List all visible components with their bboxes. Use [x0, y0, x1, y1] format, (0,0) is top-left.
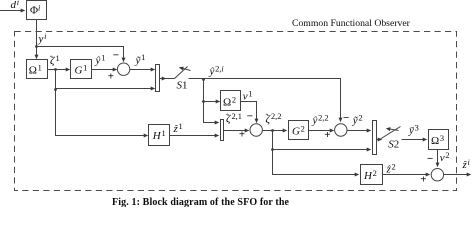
label d^i [11, 0, 20, 11]
svg-text:yi: yi [38, 32, 48, 45]
svg-text:ˆ: ˆ [226, 111, 229, 121]
block H^2 [361, 165, 383, 185]
label H^1 in block [152, 129, 166, 142]
summing circle 4 [431, 169, 443, 181]
block Omega^2 [221, 91, 241, 111]
wire into Omega2 [204, 101, 220, 103]
svg-text:−: − [343, 112, 349, 124]
node zeta-hat-1 junction [54, 68, 57, 71]
mux bar 3 [373, 121, 377, 155]
node y^i branch junction [35, 45, 38, 48]
svg-text:+: + [420, 173, 426, 185]
node branch to bar1 [54, 88, 57, 91]
wire zeta-hat-1 Omega1 to G1 [48, 69, 70, 71]
svg-text:ȳ3: ȳ3 [408, 123, 419, 136]
svg-text:+: + [239, 129, 245, 141]
label G^2 in block [292, 124, 305, 137]
mux bar 1 [156, 65, 160, 92]
svg-text:Fig. 1: Block diagram of the S: Fig. 1: Block diagram of the SFO for the [112, 197, 290, 207]
wire bar1 output stub [160, 78, 166, 80]
svg-text:Common Functional Observer: Common Functional Observer [292, 18, 411, 29]
label v^2 [440, 151, 450, 164]
wire y^i vertical from Phi to Omega1 [36, 20, 38, 59]
svg-text:ẑ2: ẑ2 [386, 162, 396, 175]
wire zeta-hat-1 branch down [56, 70, 148, 136]
wire zeta-hat-22 circle2 to G2 [263, 130, 287, 132]
switch S2 blade [380, 127, 401, 140]
wire branch to bar3 lower input [273, 149, 371, 151]
label y-hat-22 [312, 113, 329, 126]
label y-hat-2i [209, 64, 225, 77]
switch S2 actuator arrow [387, 129, 399, 131]
wire y^i feedback to summing circle 1 [37, 47, 124, 62]
svg-text:ŷ1: ŷ1 [95, 53, 106, 66]
svg-text:ỹ1: ỹ1 [135, 53, 146, 66]
svg-text:−: − [247, 111, 253, 123]
wire y-bar-3 S2 to Omega3 [402, 139, 427, 141]
mux bar 2 [221, 120, 224, 141]
label z-hat-2 [386, 162, 396, 175]
svg-text:ˆ: ˆ [265, 112, 268, 122]
svg-text:v1: v1 [243, 90, 253, 103]
label y-bar-3 [408, 123, 419, 136]
wire y-hat-2i S1 to circle3 top [189, 79, 341, 122]
block G^1 [71, 60, 92, 79]
svg-text:−: − [113, 50, 119, 62]
label z-hat-i output [462, 158, 471, 171]
svg-text:+: + [324, 129, 330, 141]
label zeta-hat-21 [226, 111, 242, 125]
node branch to Omega2 [202, 100, 205, 103]
svg-text:ẑ1: ẑ1 [173, 122, 183, 135]
wire bar2 output zeta-hat-21 to circle2 [224, 130, 249, 132]
dashed observer boundary box [15, 32, 457, 191]
svg-text:S2: S2 [388, 139, 399, 151]
label y^i [38, 32, 48, 45]
wire branch to bar1 lower input [56, 88, 155, 90]
svg-text:di: di [11, 0, 20, 11]
block Omega^3 [429, 130, 449, 150]
label v^1 [243, 90, 253, 103]
wire branch down to bar2 [204, 79, 219, 123]
node y-hat-2i branch [202, 78, 205, 81]
label zeta-hat-1 [50, 54, 60, 68]
wire H1 output z-hat-1 into bar2 [170, 135, 219, 137]
label y-hat-1 [95, 53, 106, 66]
wire zeta-hat-22 branch down [273, 131, 359, 175]
wire y-hat-1 G1 to summing circle 1 [92, 69, 117, 71]
wire y-hat-22 G2 to circle3 [309, 130, 334, 132]
label G^1 in block [75, 64, 88, 77]
block Omega^1 [27, 60, 48, 79]
wire v^2 Omega3 down to circle4 [437, 150, 439, 167]
label y-tilde-1 [135, 53, 146, 66]
node zeta-hat-22 junction [271, 129, 274, 132]
block G^2 [289, 121, 309, 140]
wire d^i input arrow [0, 10, 25, 12]
switch S1 actuator arrow [180, 68, 191, 71]
svg-text:ẑi: ẑi [462, 158, 471, 171]
wire y-tilde-2 circle3 to bar3 [347, 130, 371, 132]
svg-text:S1: S1 [177, 80, 188, 92]
label zeta-hat-22 [265, 112, 281, 126]
label y-tilde-2 [352, 113, 363, 126]
svg-text:ỹ2: ỹ2 [352, 113, 363, 126]
svg-text:−: − [427, 153, 433, 165]
svg-text:ŷ2,i: ŷ2,i [209, 64, 225, 77]
wire v^1 Omega2 to circle2 top [241, 102, 257, 123]
wire y-tilde-1 circle1 to bar1 [130, 69, 155, 71]
wire z-hat-i output [444, 174, 471, 176]
summing circle 3 [335, 124, 347, 136]
node branch to bar3 [271, 148, 274, 151]
summing circle 2 [250, 124, 262, 136]
label z-hat-1 [173, 122, 183, 135]
switch S1 blade [175, 67, 188, 79]
summing circle 1 [117, 63, 129, 75]
block Phi^i [27, 1, 47, 20]
svg-text:ŷ2,2: ŷ2,2 [312, 113, 329, 126]
label H^2 in block [363, 169, 377, 182]
block H^1 [149, 125, 170, 146]
svg-text:+: + [108, 71, 114, 83]
svg-text:ˆ: ˆ [50, 54, 53, 64]
wire bar3 output stub [377, 139, 382, 141]
svg-text:v2: v2 [440, 151, 450, 164]
wire z-hat-2 H2 to circle4 [383, 174, 430, 176]
